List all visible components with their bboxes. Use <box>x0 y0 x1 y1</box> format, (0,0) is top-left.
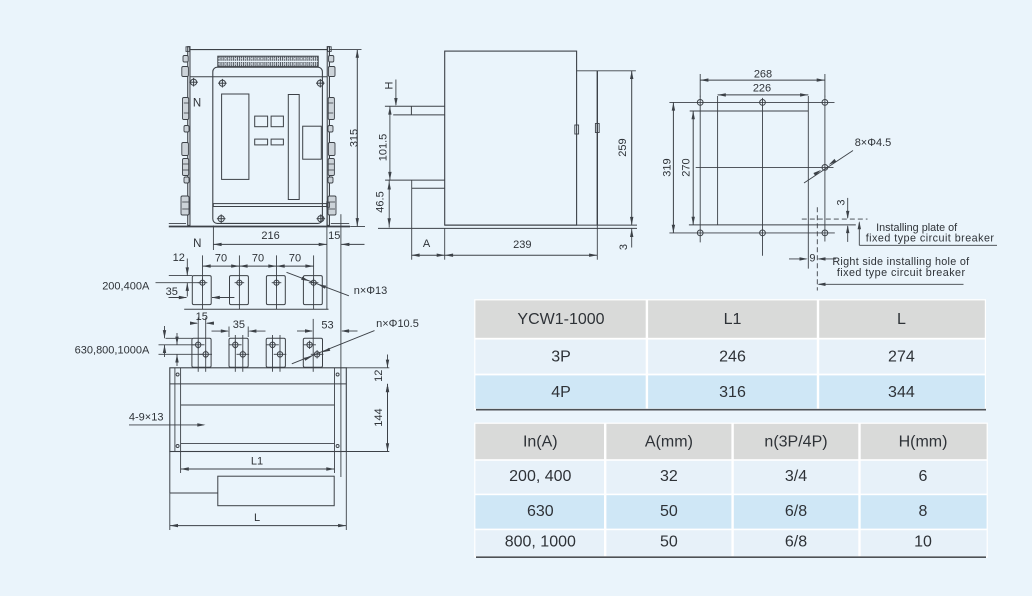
dim L1 plan <box>181 452 335 474</box>
front view: right guide rail <box>327 47 331 226</box>
svg-text:H: H <box>384 81 396 89</box>
table 1: header row YCW1-1000 / L1 / L <box>475 300 984 337</box>
svg-text:800, 1000: 800, 1000 <box>505 533 576 550</box>
svg-text:630: 630 <box>527 503 554 520</box>
front view: breaker body outline <box>213 67 323 223</box>
projection line right <box>340 250 342 368</box>
svg-text:344: 344 <box>888 384 915 401</box>
svg-text:101.5: 101.5 <box>378 134 390 162</box>
svg-text:3P: 3P <box>551 349 571 366</box>
svg-text:L1: L1 <box>724 311 742 328</box>
table 2: row 200,400 <box>475 461 986 494</box>
front view: mounting screws <box>189 78 325 223</box>
front view: centre slot <box>288 95 299 200</box>
terminal pad row2 P2 <box>229 335 249 372</box>
front view: frame top edge <box>188 49 330 51</box>
dim 270 plate <box>680 111 695 225</box>
svg-text:H(mm): H(mm) <box>899 433 948 450</box>
svg-text:YCW1-1000: YCW1-1000 <box>517 311 604 328</box>
svg-text:3: 3 <box>618 244 630 250</box>
row2 left extension lines <box>159 338 204 354</box>
terminal pad row1 P1 <box>192 255 211 309</box>
terminal pad row1 P4 <box>303 255 322 309</box>
svg-text:15: 15 <box>328 230 340 242</box>
dim 239 side <box>445 239 597 257</box>
row1 left extension lines <box>156 276 201 283</box>
svg-text:239: 239 <box>513 239 531 251</box>
svg-text:L: L <box>254 512 260 524</box>
front view: arc chute vent band <box>218 56 318 66</box>
svg-text:259: 259 <box>617 138 629 156</box>
svg-text:N: N <box>193 97 201 109</box>
leader n×Φ13 <box>287 272 388 297</box>
label 200,400A <box>102 281 150 293</box>
svg-text:268: 268 <box>754 68 772 80</box>
svg-text:4P: 4P <box>551 384 571 401</box>
dim H side <box>384 80 398 107</box>
terminal pad row2 P4 <box>303 319 323 372</box>
dim 259 side <box>617 71 633 225</box>
front view: left guide rail <box>186 47 190 226</box>
svg-text:274: 274 <box>888 349 915 366</box>
terminal pad row2 P1 <box>192 318 212 372</box>
svg-text:10: 10 <box>914 533 932 550</box>
dim 12 plan <box>346 355 389 397</box>
terminal pad row1 P2 <box>230 255 249 309</box>
plate: edges <box>689 96 856 269</box>
svg-text:9: 9 <box>809 252 815 264</box>
label 4-9x13 with leader <box>129 411 206 426</box>
dim 35 row1 <box>166 286 235 299</box>
plate: fixing holes 8xΦ4.5 <box>697 100 828 236</box>
svg-text:226: 226 <box>753 82 771 94</box>
front view: nameplate panel <box>222 94 249 179</box>
plan view: inner vertical lines <box>175 368 341 477</box>
svg-text:315: 315 <box>349 129 361 147</box>
svg-text:35: 35 <box>166 286 178 298</box>
svg-text:In(A): In(A) <box>523 433 558 450</box>
side view: upper terminal tab <box>385 106 445 115</box>
svg-text:630,800,1000A: 630,800,1000A <box>75 344 150 356</box>
svg-text:200,400A: 200,400A <box>102 281 150 293</box>
svg-text:A(mm): A(mm) <box>645 433 693 450</box>
svg-text:6/8: 6/8 <box>785 533 807 550</box>
svg-text:A: A <box>423 238 431 250</box>
svg-text:319: 319 <box>662 158 674 176</box>
svg-text:70: 70 <box>215 252 227 264</box>
svg-text:53: 53 <box>321 319 333 331</box>
dim 3 side <box>618 228 634 250</box>
front view: indicator windows <box>255 116 284 145</box>
row2 left small dims <box>163 326 179 366</box>
plan view: corner pins <box>176 373 339 448</box>
side view: lower terminal tab <box>385 180 445 260</box>
dim 12 row1 <box>173 252 189 296</box>
svg-text:35: 35 <box>233 319 245 331</box>
svg-text:3/4: 3/4 <box>785 468 807 485</box>
label 630,800,1000A <box>75 344 150 356</box>
dim 101.5 side <box>378 106 392 180</box>
dim 46.5 side <box>375 180 391 227</box>
svg-text:270: 270 <box>680 158 692 176</box>
svg-text:fixed type circuit breaker: fixed type circuit breaker <box>837 267 966 279</box>
plate: hole column lines <box>700 96 825 256</box>
svg-text:32: 32 <box>660 468 678 485</box>
svg-text:3: 3 <box>835 199 847 205</box>
svg-text:8×Φ4.5: 8×Φ4.5 <box>855 137 892 149</box>
label N terminal row <box>193 238 201 250</box>
svg-text:50: 50 <box>660 533 678 550</box>
svg-text:12: 12 <box>173 252 185 264</box>
svg-text:fixed type circuit breaker: fixed type circuit breaker <box>866 233 995 245</box>
dim 15 <box>328 214 364 250</box>
svg-text:246: 246 <box>719 349 746 366</box>
row1 baseline <box>184 308 328 310</box>
svg-text:216: 216 <box>261 230 279 242</box>
terminal pad row1 P3 <box>266 255 285 309</box>
dim 53 row2 <box>297 319 358 332</box>
dim 268 plate <box>700 68 825 96</box>
leader n×Φ10.5 <box>292 318 419 364</box>
svg-text:316: 316 <box>719 384 746 401</box>
table 1 backing <box>474 299 986 410</box>
dim L plan <box>170 452 346 531</box>
svg-text:50: 50 <box>660 503 678 520</box>
table 1: row 4P <box>475 375 984 408</box>
svg-text:n×Φ10.5: n×Φ10.5 <box>376 318 419 330</box>
dim 319 plate <box>662 102 676 233</box>
dim A side <box>411 238 445 257</box>
front view: lower crossbar <box>213 203 329 208</box>
table 2 backing <box>474 423 988 558</box>
svg-text:200, 400: 200, 400 <box>509 468 571 485</box>
dim 15 row2 <box>190 311 214 325</box>
dim 315 <box>330 50 365 227</box>
front view: left rail clips <box>181 56 189 216</box>
plan view: lower step and handle <box>170 452 334 506</box>
svg-text:n(3P/4P): n(3P/4P) <box>764 433 827 450</box>
dim 70 spans row1 <box>203 252 314 268</box>
table 2: bottom rule <box>476 556 986 558</box>
svg-text:46.5: 46.5 <box>375 191 387 212</box>
svg-text:8: 8 <box>919 503 928 520</box>
svg-text:L1: L1 <box>251 455 263 467</box>
plate: hole row lines <box>669 102 834 233</box>
note: installing plate <box>858 221 997 245</box>
dim 9 plate <box>789 252 836 264</box>
svg-text:70: 70 <box>289 252 301 264</box>
front view: base plate <box>169 223 350 226</box>
svg-text:L: L <box>897 311 906 328</box>
table 2: row 630 <box>475 495 986 528</box>
side view: base lines <box>378 225 637 260</box>
dim 144 plan <box>346 384 389 452</box>
plan view: inner horizontal lines <box>170 384 346 444</box>
svg-text:144: 144 <box>373 408 385 426</box>
terminal pad row2 P3 <box>266 335 286 372</box>
plate: dashed reference lines <box>802 207 868 290</box>
leader 8×Φ4.5 <box>804 137 891 183</box>
svg-text:n×Φ13: n×Φ13 <box>354 285 388 297</box>
side view: right panel <box>575 71 636 225</box>
svg-text:12: 12 <box>373 370 385 382</box>
table 1: row 3P <box>475 340 984 374</box>
note: right side installing hole <box>817 256 970 286</box>
front view: right rail clips <box>328 56 336 216</box>
dim 35 row2 <box>212 319 266 337</box>
front view: upper crossbar line <box>190 76 327 78</box>
svg-text:6: 6 <box>919 468 928 485</box>
plan view: outline <box>170 368 346 452</box>
table 1: bottom rule <box>476 409 986 411</box>
dim 216 <box>213 201 327 309</box>
dim 3 plate <box>835 198 849 242</box>
label N upper <box>193 97 201 109</box>
side view: body outline <box>445 51 577 225</box>
svg-text:6/8: 6/8 <box>785 503 807 520</box>
dim 226 plate <box>718 82 809 96</box>
svg-text:70: 70 <box>252 252 264 264</box>
table 2: header row In(A)/A(mm)/n(3P,4P)/H(mm) <box>475 424 986 459</box>
svg-text:N: N <box>193 238 201 250</box>
front view: handle recess <box>303 126 322 159</box>
svg-text:15: 15 <box>196 311 208 323</box>
svg-text:4-9×13: 4-9×13 <box>129 411 164 423</box>
table 2: row 800,1000 <box>475 530 986 556</box>
